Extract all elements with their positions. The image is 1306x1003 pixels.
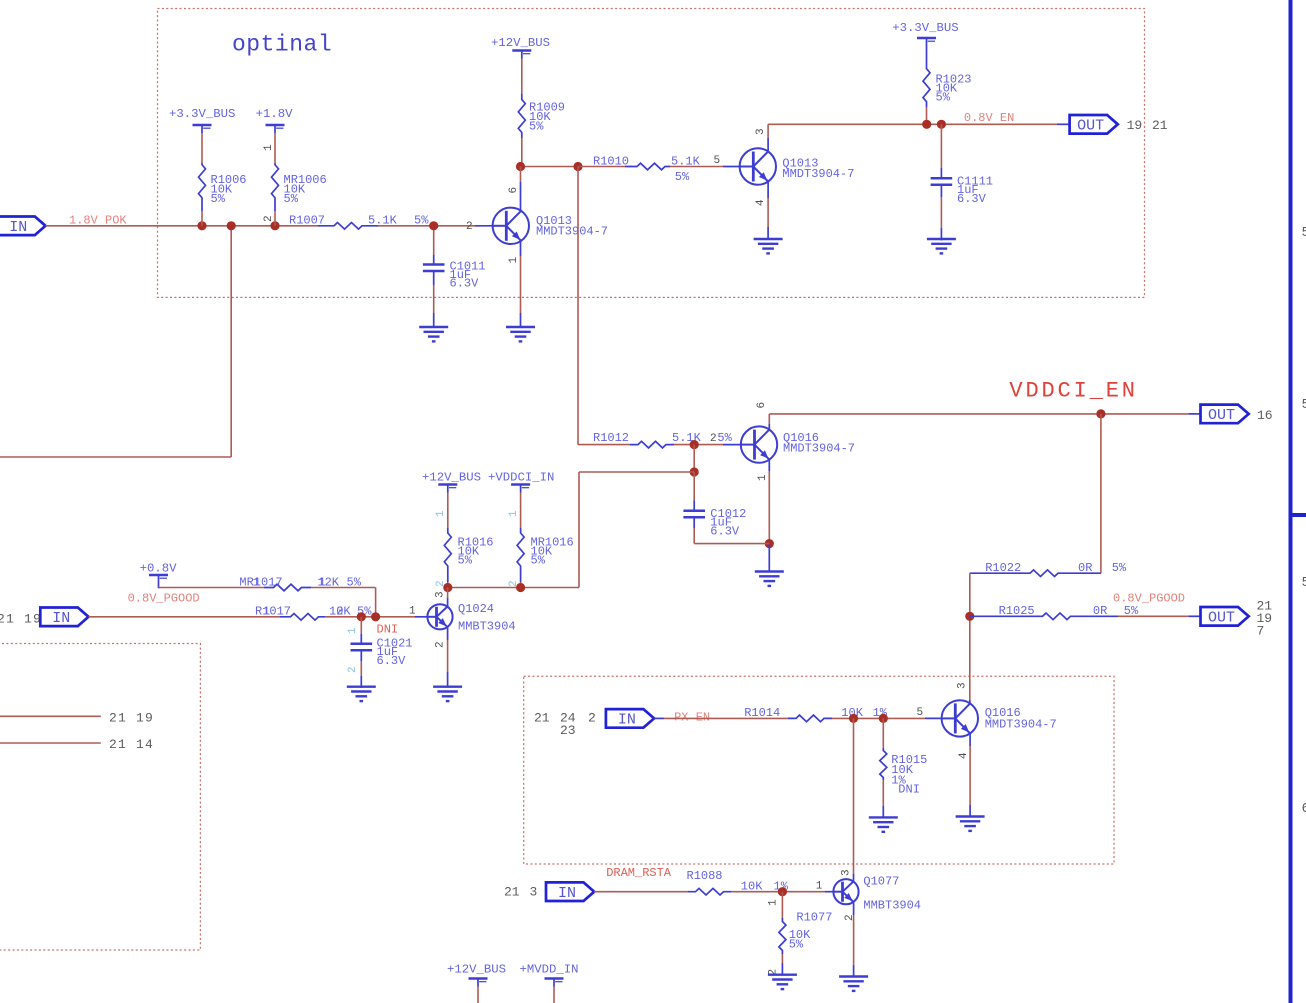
resistor R1012: [630, 441, 674, 448]
wire +0.8V stem: [158, 583, 160, 588]
svg-text:5%: 5%: [529, 120, 544, 134]
svg-text:OUT: OUT: [1077, 118, 1104, 135]
wire R1023 bottom: [926, 107, 928, 124]
wire R1014 right: [832, 717, 925, 719]
svg-text:+0.8V: +0.8V: [140, 562, 178, 576]
transistor Q1016 lower: [942, 700, 978, 736]
ground Q1077: [839, 975, 868, 977]
junction C1021: [357, 612, 366, 621]
capacitor C1021: [351, 643, 373, 646]
transistor Q1016 upper: [741, 426, 777, 462]
port IN 1.8V POK: [0, 217, 46, 236]
svg-text:1: 1: [508, 257, 520, 264]
wire vertical R1022 down: [969, 573, 971, 700]
wire C1111 bottom: [940, 185, 942, 197]
svg-text:R1022: R1022: [985, 561, 1021, 575]
svg-text:23: 23: [560, 723, 576, 738]
wire MR1017 branch down: [375, 588, 377, 617]
svg-text:+VDDCI_IN: +VDDCI_IN: [488, 471, 554, 485]
wire base lead Q1016a: [723, 444, 740, 446]
svg-text:1: 1: [263, 605, 270, 619]
svg-text:0R: 0R: [1093, 604, 1107, 618]
svg-text:0.8V_PGOOD: 0.8V_PGOOD: [128, 592, 200, 606]
wire emitter Q1016a: [768, 460, 770, 471]
svg-text:3: 3: [530, 885, 538, 900]
wire C1011 bottom: [433, 271, 435, 285]
svg-text:VDDCI_EN: VDDCI_EN: [1009, 379, 1137, 404]
svg-text:5%: 5%: [1112, 561, 1127, 575]
wire stub net 21-19: [0, 715, 101, 717]
svg-text:5%: 5%: [531, 554, 546, 568]
svg-text:5.1K: 5.1K: [368, 214, 398, 228]
svg-text:5%: 5%: [284, 192, 299, 206]
svg-text:21: 21: [504, 885, 520, 900]
wire C1021 bottom: [360, 650, 362, 661]
wire vertical branch down: [230, 226, 232, 457]
svg-text:19: 19: [1127, 118, 1143, 133]
svg-text:2: 2: [435, 641, 447, 648]
resistor R1017: [280, 614, 325, 621]
capacitor C1111: [931, 177, 953, 180]
svg-text:5%: 5%: [789, 938, 804, 952]
svg-text:R1077: R1077: [796, 911, 832, 925]
resistor MR1006: [272, 163, 279, 200]
svg-text:5: 5: [1302, 397, 1306, 413]
svg-text:+3.3V_BUS: +3.3V_BUS: [892, 21, 958, 35]
junction R1077: [778, 887, 787, 896]
wire C1012 to emitter: [694, 543, 769, 545]
wire emitter Q1024: [447, 627, 449, 640]
svg-text:3: 3: [841, 869, 853, 876]
svg-text:5%: 5%: [675, 170, 690, 184]
resistor R1010: [625, 163, 670, 170]
svg-text:1: 1: [757, 474, 769, 481]
svg-text:+3.3V_BUS: +3.3V_BUS: [169, 107, 235, 121]
wire emitter to ground: [768, 544, 770, 572]
svg-text:21 19: 21 19: [0, 612, 42, 627]
wire R1023 top: [926, 46, 928, 63]
wire R1012 left: [578, 444, 630, 446]
resistor R1016: [444, 528, 451, 571]
junction at R1006: [197, 221, 206, 230]
svg-text:6.3V: 6.3V: [377, 654, 407, 668]
capacitor C1012: [683, 510, 705, 513]
ground Q1013a: [506, 326, 535, 328]
junction R1023: [922, 120, 931, 129]
wire base lead Q1077: [825, 891, 833, 893]
wire R1014 left: [654, 717, 664, 719]
wire R1016 bottom: [447, 571, 449, 582]
wire R1017 left: [89, 616, 281, 618]
wire emitter Q1016b: [969, 734, 971, 746]
svg-text:MMDT3904-7: MMDT3904-7: [985, 718, 1057, 732]
svg-text:6: 6: [1302, 801, 1306, 817]
junction at branch: [227, 221, 236, 230]
svg-text:5%: 5%: [717, 431, 732, 445]
wire MR1017 right: [311, 587, 376, 589]
svg-text:DRAM_RSTA: DRAM_RSTA: [606, 866, 672, 880]
wire R1077 bottom: [781, 954, 783, 963]
ground R1015: [869, 816, 898, 818]
wire collector Q1016a: [768, 424, 770, 429]
svg-text:OUT: OUT: [1208, 610, 1235, 627]
svg-text:5%: 5%: [936, 91, 951, 105]
wire R1012 right: [674, 444, 723, 446]
svg-text:4: 4: [958, 752, 970, 759]
resistor R1007: [318, 223, 378, 230]
wire C1011 top: [433, 226, 435, 255]
svg-text:MMDT3904-7: MMDT3904-7: [782, 167, 854, 181]
wire collector Q1013a: [520, 167, 522, 183]
wire horizontal to left edge: [0, 456, 231, 458]
wire R1025 right: [1118, 615, 1188, 617]
wire base lead Q1024: [415, 616, 427, 618]
svg-text:16: 16: [1257, 408, 1273, 423]
svg-text:R1014: R1014: [744, 706, 780, 720]
wire R1010 left: [578, 166, 625, 168]
svg-text:0.8V EN: 0.8V EN: [964, 111, 1014, 125]
svg-text:Q1024: Q1024: [458, 602, 494, 616]
wire C1012 bottom: [693, 517, 695, 528]
wire collector node horizontal: [521, 166, 579, 168]
junction R1025: [965, 612, 974, 621]
svg-text:1: 1: [435, 510, 447, 517]
dashed box PX EN region: [524, 676, 1114, 864]
ground Q1013b: [754, 238, 783, 240]
wire R1088 left: [594, 891, 688, 893]
resistor R1025: [970, 613, 1118, 620]
wire base branch down: [693, 445, 695, 472]
junction at MR1006: [270, 221, 279, 230]
svg-text:2: 2: [466, 221, 473, 233]
ground C1021: [347, 686, 376, 688]
wire VDDCI_EN horizontal: [769, 413, 1188, 415]
wire node to left: [579, 471, 694, 473]
wire R1015 top: [882, 718, 884, 748]
ground Q1024: [433, 686, 462, 688]
svg-text:MMBT3904: MMBT3904: [863, 899, 921, 913]
svg-text:2: 2: [347, 666, 359, 673]
transistor Q1024: [427, 604, 452, 629]
svg-text:1: 1: [253, 576, 260, 590]
svg-text:optinal: optinal: [232, 32, 332, 58]
svg-text:4: 4: [755, 199, 767, 206]
wire 0.8V EN horizontal: [768, 123, 1057, 125]
wire port stub 0.8V EN: [1057, 123, 1070, 125]
svg-text:DNI: DNI: [377, 623, 399, 637]
junction MR1017 branch: [371, 612, 380, 621]
wire R1017 right: [325, 616, 415, 618]
svg-text:+12V_BUS: +12V_BUS: [491, 36, 550, 50]
svg-text:2: 2: [588, 711, 596, 726]
wire port stub VDDCI_EN: [1188, 413, 1200, 415]
resistor R1088: [688, 888, 731, 895]
svg-text:3: 3: [435, 591, 447, 598]
resistor R1014: [788, 715, 832, 722]
resistor R1077: [779, 918, 786, 954]
wire MR1006 top: [274, 133, 276, 163]
svg-text:21 19: 21 19: [109, 711, 154, 726]
svg-text:21 14: 21 14: [109, 737, 154, 752]
wire R1016 top: [447, 493, 449, 529]
svg-text:IN: IN: [558, 885, 576, 902]
resistor R1015: [880, 748, 887, 780]
junction VDDCI_EN: [1096, 409, 1105, 418]
svg-text:DNI: DNI: [898, 783, 920, 797]
svg-text:R1007: R1007: [289, 214, 325, 228]
dashed box optional region: [158, 9, 1145, 298]
sheet border right edge: [1289, 0, 1293, 1003]
transistor Q1013 first: [493, 208, 529, 244]
wire collector Q1077 lead: [853, 874, 855, 882]
svg-text:21: 21: [1152, 118, 1168, 133]
wire emitter Q1013b: [767, 182, 769, 198]
wire emitter Q1077: [853, 902, 855, 915]
resistor R1022: [970, 570, 1101, 577]
wire R1009 bottom: [521, 138, 523, 167]
svg-text:1: 1: [816, 881, 823, 893]
resistor R1006: [199, 163, 206, 200]
wire C1012 top: [693, 472, 695, 501]
wire vertical R1010 to R1012: [577, 167, 579, 445]
svg-text:R1025: R1025: [999, 604, 1035, 618]
sheet border section tick: [1292, 513, 1306, 517]
svg-text:+12V_BUS: +12V_BUS: [447, 963, 506, 977]
ground C1011: [419, 326, 448, 328]
svg-text:1: 1: [409, 606, 416, 618]
ground Q1016a: [755, 570, 784, 572]
svg-text:2: 2: [263, 215, 275, 222]
resistor MR1017: [264, 584, 311, 591]
wire 1.8V POK horizontal: [46, 225, 319, 227]
wire base lead Q1016b: [925, 717, 942, 719]
svg-text:PX EN: PX EN: [674, 711, 710, 725]
wire R1010 right: [670, 166, 723, 168]
svg-text:6.3V: 6.3V: [450, 277, 480, 291]
svg-text:2: 2: [710, 433, 717, 445]
port IN DRAM_RSTA: [546, 882, 594, 901]
capacitor C1011: [423, 263, 445, 266]
dashed box bottom-left region: [0, 644, 200, 951]
wire R1009 top: [521, 59, 523, 95]
svg-text:5: 5: [917, 707, 924, 719]
svg-text:5%: 5%: [211, 192, 226, 206]
svg-text:5: 5: [714, 155, 721, 167]
svg-text:7: 7: [1257, 624, 1265, 639]
wire C1111 top: [940, 124, 942, 168]
wire collector Q1016b: [969, 700, 971, 703]
port IN 0.8V_PGOOD: [40, 608, 88, 627]
svg-text:Q1077: Q1077: [863, 875, 899, 889]
wire R1006 bottom: [201, 200, 203, 212]
ground C1111: [927, 238, 956, 240]
svg-text:R1012: R1012: [593, 431, 629, 445]
svg-text:R1017: R1017: [255, 605, 291, 619]
resistor MR1016: [517, 528, 524, 571]
junction C1011: [429, 221, 438, 230]
svg-text:1: 1: [508, 510, 520, 517]
svg-text:5%: 5%: [414, 214, 429, 228]
svg-text:R1088: R1088: [687, 869, 723, 883]
wire emitter Q1013a: [520, 241, 522, 256]
svg-text:+MVDD_IN: +MVDD_IN: [520, 963, 579, 977]
wire R1088 right: [731, 891, 825, 893]
wire R1015 bottom: [882, 780, 884, 806]
svg-text:+12V_BUS: +12V_BUS: [422, 471, 481, 485]
resistor R1023: [923, 63, 930, 107]
wire C1021 top: [360, 617, 362, 634]
junction R1016: [443, 583, 452, 592]
junction R1010 branch: [573, 162, 582, 171]
svg-text:OUT: OUT: [1208, 407, 1235, 424]
wire MR1016 top: [520, 493, 522, 529]
resistor R1009: [518, 94, 525, 138]
svg-text:MMDT3904-7: MMDT3904-7: [783, 442, 855, 456]
svg-text:1: 1: [347, 627, 359, 634]
wire PX branch vertical: [853, 718, 855, 874]
svg-text:0R: 0R: [1078, 561, 1092, 575]
wire MR1016 bottom: [520, 571, 522, 582]
svg-text:IN: IN: [9, 219, 27, 236]
port OUT VDDCI_EN: [1201, 405, 1249, 424]
junction C1111: [937, 120, 946, 129]
svg-text:5%: 5%: [458, 554, 473, 568]
svg-text:1: 1: [263, 144, 275, 151]
port IN PX_EN: [606, 709, 654, 728]
wire R1006 top: [201, 133, 203, 163]
wire R1077 top: [781, 892, 783, 918]
wire MR1017 left: [159, 587, 265, 589]
svg-text:6.3V: 6.3V: [710, 525, 740, 539]
wire base lead Q1013b: [723, 166, 739, 168]
wire collector Q1013b: [767, 138, 769, 151]
wire stub net 21-14: [0, 742, 101, 744]
wire collector Q1024: [447, 598, 449, 606]
wire port stub 0.8V_PGOOD: [1188, 615, 1200, 617]
junction base branch: [690, 440, 699, 449]
junction emitter gnd: [765, 539, 774, 548]
ground R1077: [768, 974, 797, 976]
svg-text:6: 6: [508, 187, 520, 194]
svg-text:MR1017: MR1017: [239, 576, 282, 590]
junction C1012 node: [690, 467, 699, 476]
svg-text:3: 3: [755, 128, 767, 135]
wire base lead Q1013a: [475, 225, 493, 227]
svg-text:IN: IN: [52, 610, 70, 627]
svg-text:+1.8V: +1.8V: [256, 107, 294, 121]
svg-text:5: 5: [1302, 575, 1306, 591]
junction PX branch: [849, 714, 858, 723]
wire +12V_BUS stem: [477, 987, 479, 1003]
svg-text:3: 3: [957, 682, 969, 689]
transistor Q1077: [833, 879, 858, 904]
svg-text:MMBT3904: MMBT3904: [458, 620, 516, 634]
ground Q1016b: [956, 815, 985, 817]
svg-text:R1010: R1010: [593, 155, 629, 169]
wire left branch down: [578, 472, 580, 588]
svg-text:IN: IN: [618, 712, 636, 729]
port OUT 0.8V_PGOOD: [1201, 607, 1249, 626]
junction R1009 collector: [516, 162, 525, 171]
port OUT 0.8V EN: [1070, 115, 1118, 134]
svg-text:1: 1: [768, 899, 780, 906]
svg-text:6.3V: 6.3V: [957, 192, 987, 206]
junction MR1016: [516, 583, 525, 592]
transistor Q1013 second: [740, 148, 776, 184]
wire vertical VDDCI branch: [1100, 414, 1102, 573]
svg-text:5: 5: [1302, 225, 1306, 241]
wire to R1016 rail: [448, 587, 579, 589]
svg-text:MMDT3904-7: MMDT3904-7: [536, 225, 608, 239]
wire MR1006 bottom: [274, 200, 276, 212]
svg-text:6: 6: [756, 402, 768, 409]
junction R1015: [879, 714, 888, 723]
svg-text:21: 21: [534, 711, 550, 726]
wire +MVDD_IN stem: [553, 987, 555, 1003]
